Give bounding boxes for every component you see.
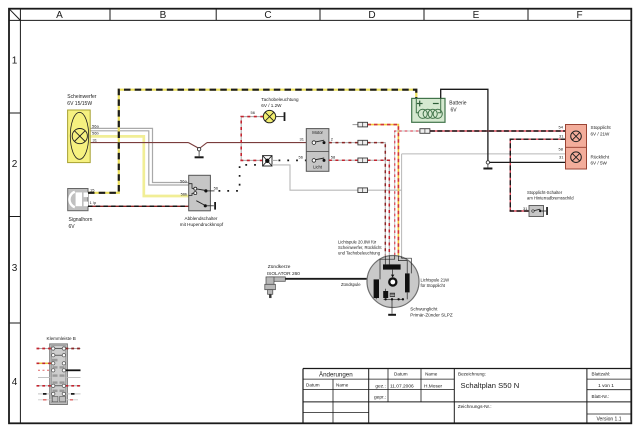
wire gray 56a headlight to dimmer	[90, 128, 189, 182]
signalhorn label	[69, 217, 93, 230]
svg-text:C: C	[264, 10, 271, 21]
wire red 58 switch to flywheel	[329, 160, 389, 255]
svg-text:Rücklicht: Rücklicht	[591, 155, 610, 160]
svg-text:11.07.2006: 11.07.2006	[390, 384, 414, 390]
connector plug square B	[263, 156, 272, 166]
klemmleiste terminals	[52, 347, 66, 396]
connector inline on wire 58	[358, 158, 368, 163]
svg-text:56a: 56a	[92, 124, 99, 129]
svg-text:Signalhorn: Signalhorn	[69, 217, 93, 223]
svg-text:6V / 21W: 6V / 21W	[591, 131, 611, 136]
wire gray second headlight to dimmer	[90, 131, 189, 185]
svg-text:Zündkerze: Zündkerze	[268, 264, 291, 270]
svg-text:6V: 6V	[451, 108, 458, 114]
signalhorn box	[68, 189, 88, 211]
svg-text:Version 1.1: Version 1.1	[596, 417, 621, 423]
scheinwerfer headlight box	[68, 110, 91, 163]
schwunglicht flywheel magneto	[367, 256, 419, 314]
svg-text:6V / 1.2W: 6V / 1.2W	[261, 103, 282, 108]
wire dotted 56 dimmer to connector	[219, 165, 263, 191]
svg-text:Name: Name	[425, 372, 438, 377]
svg-text:B: B	[160, 10, 167, 21]
svg-text:und Tachobeleuchtung: und Tachobeleuchtung	[338, 250, 381, 255]
wire yellow 56b headlight to dimmer	[90, 136, 189, 196]
svg-text:Datum: Datum	[306, 382, 320, 387]
tachobeleuchtung lamp	[263, 110, 285, 122]
svg-text:56: 56	[299, 154, 304, 159]
svg-text:E: E	[473, 10, 480, 21]
stopplicht terminal labels	[559, 124, 565, 159]
horn terminal labels	[90, 187, 97, 205]
svg-text:1: 1	[12, 55, 18, 66]
frame column letters	[56, 10, 582, 21]
svg-text:Schaltplan S50 N: Schaltplan S50 N	[461, 381, 520, 390]
svg-text:1 von 1: 1 von 1	[598, 383, 614, 389]
svg-text:D: D	[368, 10, 375, 21]
svg-text:gepr.:: gepr.:	[374, 395, 386, 401]
wire red-gray 56 tacho branch	[241, 117, 263, 161]
ground bar flywheel	[388, 314, 396, 316]
svg-text:Abblendschalter: Abblendschalter	[185, 216, 218, 221]
flywheel labels	[338, 240, 382, 256]
svg-text:56: 56	[251, 110, 256, 115]
svg-text:31: 31	[300, 137, 305, 142]
svg-text:Scheinwerfer: Scheinwerfer	[67, 94, 97, 100]
wire maroon 2 switch to flywheel	[329, 143, 385, 256]
chassis bar at dimmer horn	[214, 202, 216, 210]
svg-text:Zündspule: Zündspule	[341, 282, 361, 287]
tachobeleuchtung label	[261, 97, 299, 108]
wire gray 58 flywheel to ruecklicht	[402, 154, 566, 257]
abblendschalter box	[189, 175, 215, 211]
svg-text:Stopplicht-Schalter: Stopplicht-Schalter	[527, 190, 563, 195]
zuendkerze spark plug	[265, 277, 286, 298]
connector inline on gray wire	[358, 188, 368, 193]
svg-text:6V / 5W: 6V / 5W	[591, 161, 608, 166]
svg-text:Lichtspule 20.8W für: Lichtspule 20.8W für	[338, 240, 377, 245]
svg-text:mit Hupendruckknopf: mit Hupendruckknopf	[180, 222, 224, 227]
ground node mid	[197, 148, 200, 151]
svg-text:Schwunglicht: Schwunglicht	[410, 307, 438, 312]
svg-text:58: 58	[331, 154, 336, 159]
svg-text:15: 15	[90, 187, 95, 192]
wire ignition HT cable	[285, 278, 376, 280]
ground node battery	[486, 161, 489, 164]
svg-text:56: 56	[214, 186, 219, 191]
svg-text:56b: 56b	[181, 191, 188, 196]
klemmleiste stubs row8	[38, 399, 78, 401]
svg-text:3: 3	[12, 263, 18, 274]
svg-text:Scheinwerfer, Rücklicht: Scheinwerfer, Rücklicht	[338, 245, 382, 250]
batterie box	[412, 98, 445, 122]
svg-text:56b: 56b	[92, 130, 99, 135]
svg-text:31: 31	[559, 155, 564, 160]
klemmleiste stubs row4	[38, 369, 81, 371]
klemmleiste B terminal strip	[50, 344, 68, 405]
svg-text:Stopplicht: Stopplicht	[591, 125, 612, 130]
svg-text:F: F	[576, 10, 582, 21]
wire black-yellow 15 main	[88, 90, 416, 193]
svg-text:A: A	[56, 10, 63, 21]
connector inline on red-yellow wire	[358, 122, 368, 127]
klemmleiste stubs row7	[38, 393, 81, 395]
svg-text:Bezeichnung:: Bezeichnung:	[458, 372, 486, 377]
svg-text:Tachobeleuchtung: Tachobeleuchtung	[261, 97, 299, 102]
stopplicht labels	[591, 125, 612, 165]
klemmleiste stubs row6	[37, 385, 81, 387]
wire black-red stopplicht 31 to brake switch	[510, 139, 565, 211]
headlight terminal labels	[92, 124, 99, 143]
klemmleiste stubs row5	[38, 377, 81, 379]
svg-text:6V: 6V	[69, 224, 76, 230]
svg-text:58: 58	[559, 147, 564, 152]
svg-text:31: 31	[559, 133, 564, 138]
svg-text:Lichtspule 21W: Lichtspule 21W	[421, 278, 450, 283]
connector inline on wire 2	[358, 140, 368, 145]
dimmer terminal labels	[180, 178, 188, 196]
zuendschalter box motor licht	[306, 129, 329, 172]
klemmleiste stubs row1	[37, 348, 81, 350]
wire black ground node to ruecklicht 31	[490, 161, 566, 163]
svg-text:56a: 56a	[180, 178, 187, 183]
svg-text:für Stopplicht: für Stopplicht	[421, 283, 446, 288]
wire black-red horn to dimmer	[88, 205, 197, 207]
frame row numbers	[12, 55, 18, 388]
scheinwerfer label	[67, 94, 97, 107]
batterie label	[449, 101, 466, 114]
wire black-red 54 connector to stopplicht	[430, 130, 566, 132]
svg-text:Primär-Zünder SLPZ: Primär-Zünder SLPZ	[410, 313, 453, 318]
svg-text:Klemmleiste B: Klemmleiste B	[47, 336, 76, 341]
klemmleiste stubs row3	[37, 362, 52, 364]
svg-text:6V 15/15W: 6V 15/15W	[67, 101, 92, 107]
svg-text:Motor: Motor	[312, 130, 323, 135]
svg-text:2: 2	[331, 137, 334, 142]
svg-text:31: 31	[93, 138, 98, 143]
svg-text:gez.:: gez.:	[375, 385, 385, 390]
wire dotted connector to licht switch 56	[272, 159, 306, 161]
stopplicht-schalter brake switch	[529, 206, 548, 217]
wire gray connector to flywheel	[272, 165, 402, 190]
svg-text:Licht: Licht	[313, 165, 323, 170]
svg-text:Zeichnungs-Nr.:: Zeichnungs-Nr.:	[458, 404, 492, 410]
ground bar battery	[483, 168, 492, 170]
svg-text:Batterie: Batterie	[449, 101, 466, 107]
svg-text:Name: Name	[336, 382, 349, 387]
wire dark red 31 headlight to ground and switch	[90, 143, 306, 148]
svg-text:1 /p: 1 /p	[90, 200, 97, 205]
title block	[303, 369, 631, 424]
svg-text:am Hinterradbremsschild: am Hinterradbremsschild	[527, 196, 574, 201]
brake switch label	[527, 190, 574, 201]
ground bar mid	[195, 156, 204, 158]
svg-text:4: 4	[12, 377, 18, 388]
connector inline on wire 54	[420, 129, 430, 134]
svg-text:Änderungen: Änderungen	[319, 372, 353, 379]
wire black battery minus to ground	[441, 89, 488, 160]
abblendschalter label	[180, 216, 224, 227]
svg-text:H.Moser: H.Moser	[424, 384, 443, 390]
svg-text:Blattzahl:: Blattzahl:	[592, 372, 611, 377]
svg-text:2: 2	[12, 159, 18, 170]
wire red-yellow to flywheel	[353, 125, 399, 256]
svg-text:31: 31	[523, 206, 528, 211]
wire pink 54 flywheel to connector	[395, 131, 420, 255]
svg-text:Blatt-Nr.:: Blatt-Nr.:	[592, 394, 610, 399]
zuendkerze label	[267, 264, 300, 277]
svg-text:54: 54	[559, 124, 564, 129]
stopplicht ruecklicht box	[566, 125, 587, 170]
svg-text:Datum: Datum	[394, 372, 408, 377]
svg-text:ISOLATOR 260: ISOLATOR 260	[267, 271, 300, 277]
